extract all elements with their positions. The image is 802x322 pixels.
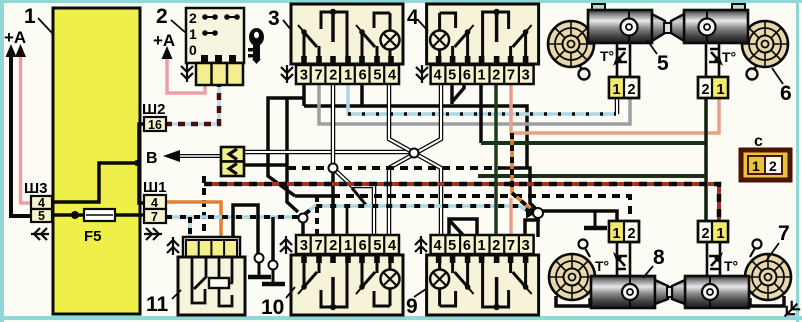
svg-text:1: 1 [189, 26, 197, 42]
svg-text:4: 4 [388, 68, 396, 84]
svg-text:4: 4 [38, 196, 45, 210]
connector arrow bottom right [780, 299, 801, 320]
svg-text:4: 4 [433, 68, 441, 84]
svg-text:Т°: Т° [600, 48, 614, 64]
switch 10 pin row 3721654 [296, 235, 399, 254]
svg-text:4: 4 [151, 196, 158, 210]
wire light blue y114 sw3-pin1 to motor5 [348, 84, 616, 114]
relay 11 [178, 237, 245, 315]
svg-text:с: с [754, 133, 763, 150]
svg-text:2: 2 [492, 238, 500, 254]
wire white/black dashed y196 to motor8 pin2 [295, 194, 332, 198]
svg-text:8: 8 [653, 246, 665, 269]
svg-text:6: 6 [463, 68, 471, 84]
connector arrow Sh1 (right) [144, 228, 162, 240]
wire dark green y176 sw4-pin2 [494, 84, 498, 176]
switch 10 body [291, 254, 403, 315]
svg-text:10: 10 [261, 296, 284, 319]
connector arrow relay [167, 237, 179, 255]
switch 4 pin row 4561273 [431, 65, 534, 84]
svg-text:2: 2 [628, 226, 636, 242]
svg-text:5: 5 [373, 238, 381, 254]
svg-text:6: 6 [780, 82, 792, 105]
ground G1 [258, 262, 261, 277]
svg-text:6: 6 [359, 68, 367, 84]
svg-text:2: 2 [702, 82, 710, 98]
wire blue branch to relay pin1 [188, 217, 192, 238]
wire white circle to sw10-pin1 [336, 171, 374, 237]
mounting block 1 (yellow box) [53, 8, 140, 314]
wire white X crossover leg B sw4-pin4 to sw10-pin4 [389, 84, 441, 237]
svg-text:Ш3: Ш3 [24, 180, 47, 197]
wire gray y124 sw3-pin7 to motor5 [319, 84, 630, 124]
svg-text:2: 2 [492, 68, 500, 84]
svg-text:2: 2 [189, 10, 197, 26]
connector arrow ignition [181, 64, 193, 82]
svg-text:1: 1 [24, 5, 36, 28]
wire +A black feed left [11, 54, 32, 216]
wire black circle down to sw10-pin2 [331, 172, 335, 237]
wire white X crossover leg A sw3-pin4 to sw9-pin4 [389, 84, 441, 237]
wire orange Sh1-4 to relay pin3 [166, 202, 221, 238]
svg-text:Ш2: Ш2 [142, 101, 165, 118]
svg-text:7: 7 [151, 210, 158, 224]
svg-text:F5: F5 [84, 228, 102, 245]
svg-text:Т°: Т° [724, 258, 738, 274]
svg-text:1: 1 [752, 158, 760, 174]
svg-text:+A: +A [153, 31, 175, 50]
svg-text:5: 5 [448, 238, 456, 254]
wire pink ignition +A [167, 58, 205, 93]
connector arrow sw9 [415, 236, 427, 254]
wire orange dashed sw4-pin7 down to circle junction [512, 133, 534, 212]
wire red/black dashed y184 to motor7 pin1 [204, 184, 719, 222]
motor 5 (gearmotor) [548, 4, 672, 98]
wire light blue dashed y218 Sh1-7 to junction [166, 206, 531, 217]
svg-text:7: 7 [315, 238, 323, 254]
switch 3 pin row 3721654 [296, 65, 399, 84]
svg-text:5: 5 [373, 68, 381, 84]
svg-text:7: 7 [315, 68, 323, 84]
svg-text:2: 2 [702, 226, 710, 242]
wire white/black dashed B-box2 down to relay pin2 [202, 176, 206, 238]
svg-text:1: 1 [478, 68, 486, 84]
connector arrow Sh3 (left) [31, 228, 49, 240]
svg-text:4: 4 [388, 238, 396, 254]
junction hollow circle H8 x333 [329, 164, 338, 173]
connector arrow sw3 [281, 65, 293, 83]
switch 4 body [427, 4, 539, 65]
wire fuse line Sh3-5 to F5 to Sh1-7 [52, 213, 144, 217]
wire pink y133 sw4-pin7 to motor6 pin1 [511, 84, 719, 133]
junction hollow circle x538 [533, 208, 543, 218]
junction hollow circle blue x303 [299, 214, 308, 223]
switch 9 pin row 4561273 [431, 235, 534, 254]
wire white double y152 from B connector to X junction [243, 150, 412, 155]
svg-text:7: 7 [507, 68, 515, 84]
svg-text:1: 1 [717, 226, 725, 242]
svg-text:0: 0 [189, 42, 197, 58]
svg-text:6: 6 [463, 238, 471, 254]
svg-text:3: 3 [300, 68, 308, 84]
motor 7 (gearmotor, lower mirrored) [667, 221, 791, 308]
wire black ground branch x259 [233, 205, 258, 254]
svg-text:3: 3 [522, 68, 530, 84]
wire black ground branch x276 [271, 217, 275, 261]
svg-text:Ш1: Ш1 [143, 179, 166, 196]
wire white sw3-pin2 down to H8 [331, 84, 336, 164]
svg-text:1: 1 [613, 226, 621, 242]
svg-text:Т°: Т° [722, 49, 736, 65]
wire black vertical motor6-2 to motor7-2 [704, 98, 708, 222]
connector pair B [221, 147, 244, 176]
ground G3 motor8 [594, 211, 597, 228]
svg-text:3: 3 [268, 7, 280, 30]
wire black sw3-pin3 down [302, 84, 306, 106]
wire black y211 junction to motor8 pin1 [538, 211, 617, 222]
svg-text:6: 6 [359, 238, 367, 254]
svg-text:2: 2 [156, 5, 168, 28]
switch 3 body [291, 4, 403, 65]
svg-text:5: 5 [38, 209, 45, 223]
legend connector c [741, 133, 790, 180]
svg-text:1: 1 [613, 82, 621, 98]
junction hollow circle ground2 [269, 261, 278, 270]
motor 6 (gearmotor, mirrored) [664, 4, 788, 98]
svg-text:+A: +A [4, 28, 26, 47]
fuse F5 [84, 209, 115, 221]
svg-text:4: 4 [407, 6, 419, 29]
wire white double y166 from B connector [243, 163, 287, 167]
wire black inside block branch to Sh3-4 [52, 163, 139, 202]
wire B arrow line [176, 154, 221, 158]
wire loop sw9 pin3 to junction x538 [525, 218, 538, 237]
junction hollow circle X crossover [410, 149, 419, 158]
wire loop sw9 pins 4-5 [449, 219, 477, 237]
connector arrow sw10 [280, 236, 292, 254]
wire black bus y106 sw3-pin3 to sw4-pin6 / H8 [304, 106, 527, 168]
svg-text:5: 5 [657, 52, 669, 75]
motor 8 (gearmotor, lower) [549, 221, 673, 308]
svg-text:5: 5 [448, 68, 456, 84]
svg-text:1: 1 [344, 68, 352, 84]
wire black inside block 16 to Sh1-4 [139, 124, 144, 203]
svg-text:2: 2 [329, 238, 337, 254]
svg-text:3: 3 [522, 238, 530, 254]
junction hollow circle ground1 [255, 254, 264, 263]
wire black branch y98 left [268, 98, 304, 196]
svg-text:Т°: Т° [595, 258, 609, 274]
svg-text:2: 2 [329, 68, 337, 84]
frame border cyan [0, 0, 802, 3]
connector arrow sw4 [416, 65, 428, 83]
key symbol [248, 28, 264, 64]
svg-text:1: 1 [717, 82, 725, 98]
svg-text:3: 3 [300, 238, 308, 254]
svg-text:7: 7 [507, 238, 515, 254]
svg-text:2: 2 [628, 82, 636, 98]
wire black x287 to sw10-pin3 [287, 98, 298, 212]
svg-text:2: 2 [769, 158, 777, 174]
svg-text:1: 1 [478, 238, 486, 254]
svg-text:11: 11 [146, 293, 169, 316]
wire blue/maroon dashed Sh2-16 to ignition [165, 85, 219, 124]
svg-text:16: 16 [148, 118, 162, 132]
svg-text:9: 9 [406, 295, 418, 318]
ignition switch 2 [186, 8, 244, 85]
svg-text:4: 4 [433, 238, 441, 254]
svg-text:В: В [146, 150, 158, 167]
svg-text:1: 1 [344, 238, 352, 254]
wire white motor5 pin1 down to blue [615, 98, 620, 114]
wire black/white dashed H8 y168 [288, 166, 500, 170]
switch 9 body [427, 254, 539, 315]
svg-text:7: 7 [778, 222, 790, 245]
wire dark green y143 sw4-pin1 to motor6 pin2 [479, 84, 483, 143]
wire +A pink feed left [21, 56, 33, 203]
ground G2 [272, 269, 275, 284]
